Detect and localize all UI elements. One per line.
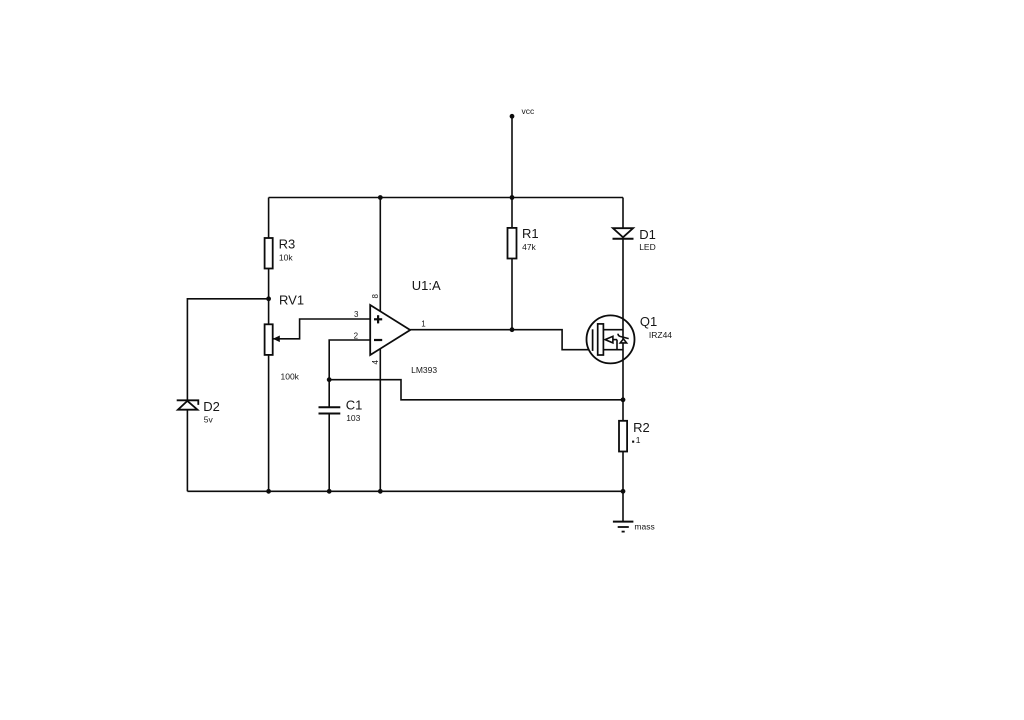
wire op-amp pin 2 net to C1 xyxy=(329,340,370,407)
svg-text:Q1: Q1 xyxy=(640,314,657,329)
zener diode D2 xyxy=(177,399,220,424)
wire D1 top lead xyxy=(622,198,624,229)
svg-text:vcc: vcc xyxy=(522,106,536,116)
svg-text:LED: LED xyxy=(639,242,656,252)
wire R3 top lead xyxy=(268,198,270,239)
channel bar xyxy=(598,324,604,355)
resistor R1 xyxy=(508,226,539,259)
svg-text:1: 1 xyxy=(636,435,641,445)
source connection xyxy=(603,349,623,351)
junction dot output/R1 xyxy=(510,327,515,332)
gate bar xyxy=(592,329,594,351)
capacitor C1 xyxy=(319,397,363,423)
resistor R2 xyxy=(619,420,650,451)
junction dot source/feedback xyxy=(621,397,626,402)
svg-text:R1: R1 xyxy=(522,226,539,241)
svg-text:103: 103 xyxy=(346,413,360,423)
node C1 junction dot xyxy=(327,377,332,382)
ground xyxy=(613,521,655,531)
body arrow xyxy=(606,339,617,341)
node RV1 junction dot xyxy=(266,296,271,301)
svg-text:R2: R2 xyxy=(633,420,650,435)
wire RV1 bottom lead xyxy=(268,355,270,491)
wire op-amp pin 3 net from RV1 wiper xyxy=(274,319,371,339)
svg-text:C1: C1 xyxy=(346,397,363,412)
svg-text:mass: mass xyxy=(634,521,654,531)
wire feedback net C1 to source of Q1 xyxy=(329,380,623,400)
svg-text:1: 1 xyxy=(421,320,426,329)
svg-text:10k: 10k xyxy=(279,253,293,263)
junction dot ground node xyxy=(621,489,626,494)
svg-text:8: 8 xyxy=(371,294,380,299)
wire output net pin1 to gate of Q1 xyxy=(410,330,592,350)
junction dot pin4 bottom xyxy=(378,489,383,494)
wire op-amp pin 4 to bottom rail xyxy=(379,349,381,492)
svg-text:3: 3 xyxy=(354,310,359,319)
svg-text:5v: 5v xyxy=(204,414,214,424)
svg-text:R3: R3 xyxy=(279,237,296,252)
power flag VCC xyxy=(510,106,535,198)
wire C1 bottom lead xyxy=(328,414,330,492)
wire D2 bottom lead xyxy=(186,410,188,492)
potentiometer RV1 xyxy=(265,292,304,381)
wire op-amp pin 8 to top rail xyxy=(379,198,381,312)
svg-text:U1:A: U1:A xyxy=(412,278,441,293)
wire top rail xyxy=(269,197,623,199)
resistor R3 xyxy=(265,237,296,269)
junction dot C1 bottom xyxy=(327,489,332,494)
svg-text:100k: 100k xyxy=(281,372,300,382)
svg-text:IRZ44: IRZ44 xyxy=(649,330,672,340)
junction dot RV1 bottom xyxy=(266,489,271,494)
wire R1 top lead xyxy=(511,198,513,228)
svg-text:D2: D2 xyxy=(203,399,220,414)
wire bottom rail xyxy=(187,490,623,492)
body diode xyxy=(620,339,626,343)
wire R2 bottom lead xyxy=(622,452,624,492)
junction dot R1 branch xyxy=(510,195,515,200)
transistor Q1 xyxy=(587,239,673,400)
wire ground lead xyxy=(622,491,624,521)
op-amp U1:A xyxy=(370,278,441,375)
wire RV1 node to D2 branch xyxy=(187,299,268,401)
svg-text:LM393: LM393 xyxy=(411,365,437,375)
wire drain-source main line xyxy=(622,239,624,400)
svg-text:RV1: RV1 xyxy=(279,292,304,307)
wire R1 bottom lead xyxy=(511,259,513,330)
svg-text:4: 4 xyxy=(371,360,380,365)
drain connection xyxy=(603,329,623,331)
svg-text:47k: 47k xyxy=(522,242,536,252)
svg-text:D1: D1 xyxy=(639,227,656,242)
wire R3 to RV1 xyxy=(268,269,270,325)
wire R2 top lead xyxy=(622,400,624,421)
junction dot pin8 branch xyxy=(378,195,383,200)
LED D1 xyxy=(613,227,656,252)
